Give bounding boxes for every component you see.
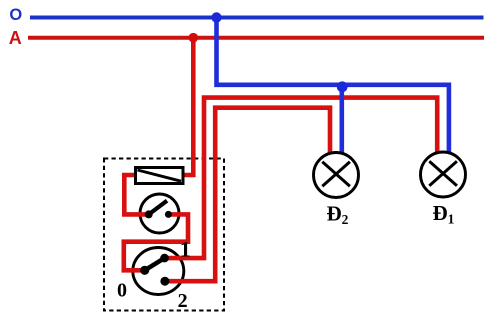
svg-text:Đ2: Đ2: [327, 202, 349, 228]
wire: rotary contact 1 up and across to lamp D1: [166, 98, 437, 259]
wire: blue branch down to lamp D2: [339, 85, 344, 154]
wire: fuse left terminal down to switch left contact: [124, 175, 147, 214]
svg-text:1: 1: [180, 236, 191, 261]
wire: blue drop from O line, across and down to lamp D1: [217, 18, 449, 153]
svg-text:A: A: [9, 28, 22, 48]
wire: red drop from A line to fuse right terminal: [183, 38, 193, 175]
lamp D2 (left lamp): [314, 153, 359, 198]
wire: O neutral line (blue, horizontal top): [30, 16, 484, 20]
lamp D1 (right lamp): [421, 152, 466, 197]
dashed enclosure box: [104, 159, 224, 311]
wire: switch right contact to rotary switch common contact: [124, 214, 188, 270]
switch K lever and contacts: [145, 201, 172, 219]
svg-text:0: 0: [117, 279, 127, 301]
node: junction dot on O line: [211, 12, 221, 22]
node: junction dot on blue branch: [337, 81, 348, 92]
fuse F (rectangle with diagonal): [136, 168, 184, 184]
switch K circle outline: [140, 194, 179, 233]
svg-text:Đ1: Đ1: [433, 201, 455, 227]
rotary switch lever and contacts 0/1/2: [140, 254, 169, 286]
svg-text:2: 2: [178, 290, 188, 312]
rotary switch ellipse outline: [133, 248, 184, 295]
svg-text:O: O: [9, 6, 22, 24]
node: junction dot on A line: [189, 33, 199, 43]
wire: rotary contact 2 up and across to lamp D2: [166, 108, 330, 282]
wire: A phase line (red, horizontal): [28, 36, 484, 40]
